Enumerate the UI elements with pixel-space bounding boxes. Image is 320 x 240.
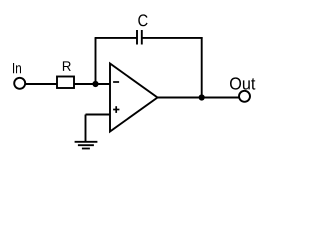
wire resistor to op-amp inverting input (74, 83, 110, 85)
terminal Out (239, 91, 250, 102)
op-amp non-inverting input plus sign (113, 106, 119, 113)
op-amp inverting input minus sign (113, 81, 119, 83)
resistor R (57, 77, 74, 89)
wire feedback top right segment (142, 37, 203, 39)
wire feedback top left segment (95, 37, 137, 39)
label In (13, 63, 21, 73)
junction node at output (199, 94, 205, 100)
ground (75, 142, 98, 149)
wire non-inverting input (86, 114, 111, 116)
capacitor C (137, 30, 142, 45)
label Out (230, 77, 255, 89)
resistor label R (63, 61, 71, 71)
junction node at inverting input (92, 81, 98, 87)
terminal In (14, 78, 25, 89)
wire feedback left vertical (95, 38, 97, 84)
capacitor label C (138, 14, 147, 26)
op-amp U1 (110, 64, 158, 132)
wire feedback right vertical (201, 37, 203, 98)
wire In to resistor (25, 83, 57, 85)
wire op-amp output (158, 97, 240, 99)
wire ground drop (85, 115, 87, 142)
